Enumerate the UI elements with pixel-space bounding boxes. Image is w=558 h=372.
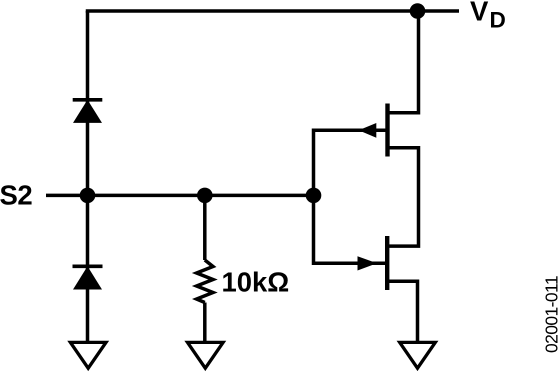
wire resistor bottom lead <box>203 303 207 342</box>
ground left <box>70 342 106 368</box>
wire Q1 drain to VD rail <box>388 11 419 113</box>
svg-text:S2: S2 <box>0 180 32 211</box>
wire left branch vertical <box>86 11 90 342</box>
diode D2 cathode bar <box>73 264 103 268</box>
junction dot S2 left <box>80 188 96 204</box>
wire resistor top lead <box>203 195 207 260</box>
transistor Q2 channel bar <box>385 236 389 290</box>
junction dot S2 gate <box>306 188 322 204</box>
transistor Q1 channel bar <box>385 104 389 157</box>
svg-text:10kΩ: 10kΩ <box>222 266 290 297</box>
diode D1 anode triangle <box>73 100 102 123</box>
transistor Q1 gate arrow <box>359 123 377 138</box>
wire Q2 source to ground <box>387 281 417 341</box>
junction dot S2 resistor <box>197 188 213 204</box>
ground middle <box>188 342 224 368</box>
wire S2 horizontal net <box>46 194 314 198</box>
junction dot VD rail <box>410 3 426 19</box>
ground right <box>400 342 436 368</box>
diode D1 cathode bar <box>73 98 103 102</box>
wire gate bracket to Q1/Q2 gates <box>314 130 386 263</box>
wire Q1 source to Q2 drain <box>387 148 418 246</box>
svg-text:VD: VD <box>470 0 506 33</box>
resistor R1 zigzag <box>197 260 213 303</box>
diode D2 anode triangle <box>73 266 102 289</box>
svg-text:02001-011: 02001-011 <box>542 276 558 353</box>
wire VD top rail <box>86 9 459 13</box>
transistor Q2 gate arrow <box>358 256 378 270</box>
